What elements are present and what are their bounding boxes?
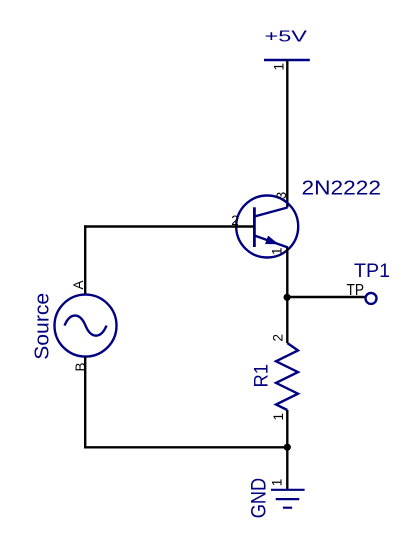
svg-text:R1: R1 bbox=[250, 364, 272, 388]
wire junction to ground bbox=[286, 447, 288, 489]
transistor base bar bbox=[253, 207, 256, 247]
wire TP junction to resistor bbox=[286, 297, 288, 343]
wire +5V to collector bbox=[286, 60, 288, 208]
source V1 circle bbox=[55, 295, 117, 357]
source sine wave bbox=[65, 316, 107, 336]
svg-text:GND: GND bbox=[246, 478, 270, 519]
svg-text:TP1: TP1 bbox=[354, 261, 390, 282]
svg-text:1: 1 bbox=[270, 247, 285, 255]
ground symbol line 3 bbox=[283, 507, 292, 509]
svg-text:1: 1 bbox=[271, 63, 286, 71]
transistor emitter arrow bbox=[265, 236, 279, 245]
transistor emitter lead bbox=[254, 236, 288, 248]
wire base horizontal bbox=[85, 225, 254, 227]
svg-text:A: A bbox=[71, 280, 86, 289]
wire resistor to bottom junction bbox=[286, 410, 288, 447]
wire bottom horizontal bbox=[84, 446, 287, 448]
svg-text:+5V: +5V bbox=[265, 29, 308, 46]
svg-text:2: 2 bbox=[270, 334, 285, 342]
test point TP1 terminal circle bbox=[366, 293, 377, 304]
junction dot at TP node bbox=[284, 294, 291, 301]
resistor R1 zigzag bbox=[276, 343, 298, 410]
wire to test point bbox=[287, 296, 364, 298]
transistor Q1 circle bbox=[236, 196, 298, 258]
wire left vertical to source bbox=[84, 225, 86, 295]
wire emitter to TP junction bbox=[286, 248, 288, 298]
transistor collector lead bbox=[254, 208, 287, 217]
svg-text:Source: Source bbox=[31, 293, 53, 360]
svg-text:2N2222: 2N2222 bbox=[302, 178, 382, 200]
ground symbol line 2 bbox=[276, 498, 300, 500]
svg-text:TP: TP bbox=[347, 282, 365, 299]
svg-text:3: 3 bbox=[274, 192, 289, 200]
wire source to bottom bbox=[84, 357, 86, 449]
svg-text:1: 1 bbox=[271, 413, 286, 421]
ground symbol line 1 bbox=[271, 489, 305, 491]
power symbol +5V bar bbox=[264, 59, 310, 61]
junction dot bottom node bbox=[284, 444, 291, 451]
svg-text:1: 1 bbox=[270, 479, 285, 487]
